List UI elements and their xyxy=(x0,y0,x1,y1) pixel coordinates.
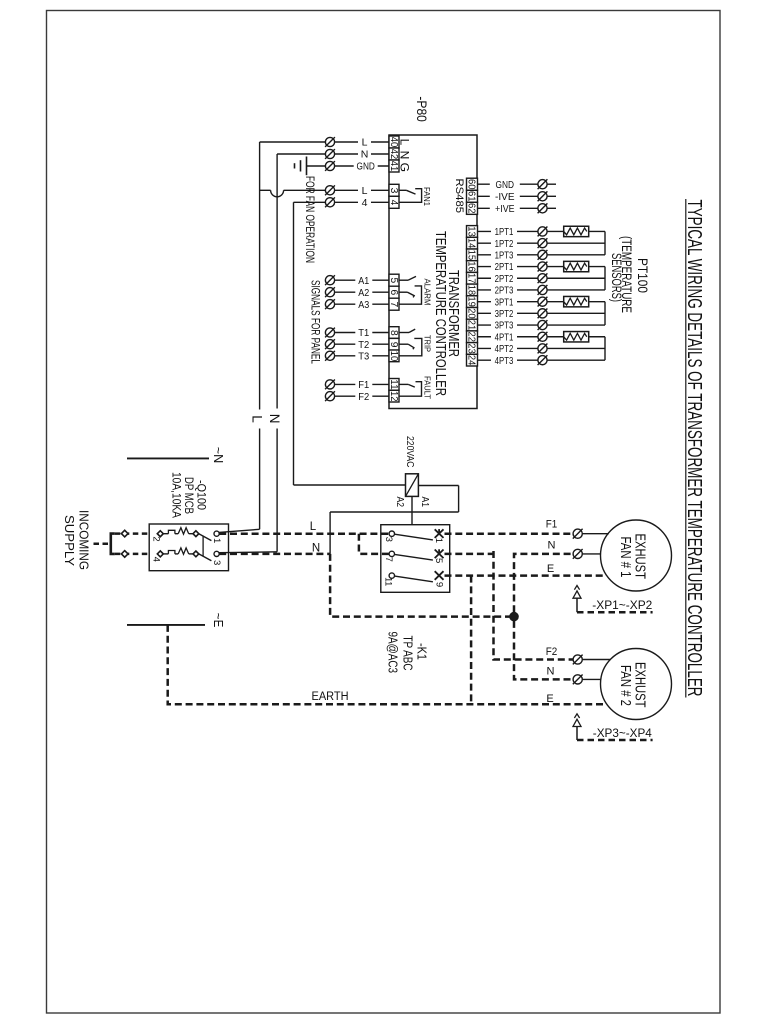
svg-text:PT100: PT100 xyxy=(635,258,651,293)
svg-text:FOR FAN OPERATION: FOR FAN OPERATION xyxy=(303,176,315,263)
connector circle F1 xyxy=(573,529,583,539)
svg-text:L: L xyxy=(398,139,412,146)
svg-text:7: 7 xyxy=(383,557,394,562)
svg-text:SUPPLY: SUPPLY xyxy=(62,515,77,566)
connector circle 3PT1 xyxy=(538,297,548,307)
svg-text:-K1: -K1 xyxy=(415,643,430,660)
svg-text:15: 15 xyxy=(465,250,476,261)
dashed wire X1 to fan1 F1 xyxy=(445,532,574,535)
wire signal row A3 xyxy=(330,303,389,305)
dashed neutral up to fan1 N xyxy=(514,554,573,612)
breaker Q100 pole 2 xyxy=(163,548,211,561)
svg-text:18: 18 xyxy=(465,285,476,296)
terminal 12 square on controller xyxy=(388,390,399,402)
label T2 xyxy=(355,338,372,350)
svg-text:E: E xyxy=(547,563,554,575)
connector circle 3PT2 xyxy=(538,308,548,318)
svg-text:T3: T3 xyxy=(358,350,369,362)
svg-text:3PT1: 3PT1 xyxy=(495,296,514,308)
dashed wire X9 to fan1 E xyxy=(445,574,607,577)
svg-text:-P80: -P80 xyxy=(414,96,430,122)
svg-text:9: 9 xyxy=(388,342,399,348)
K1 contact row 1 xyxy=(395,529,444,540)
svg-text:ALARM: ALARM xyxy=(422,279,431,306)
exhaust fan #1 circle xyxy=(601,520,672,591)
svg-text:GND: GND xyxy=(357,161,376,173)
dashed neutral feed down to junction xyxy=(330,554,510,617)
svg-text:40: 40 xyxy=(388,137,399,148)
svg-text:L: L xyxy=(362,185,368,197)
svg-text:A2: A2 xyxy=(394,497,405,508)
RTD sensor resistor group 1 xyxy=(564,226,589,236)
text -Q100 DP MCB 10A,10KA xyxy=(170,472,207,518)
RTD sensor resistor group 2 xyxy=(564,261,589,271)
connector circle +IVE xyxy=(538,203,548,213)
svg-text:3: 3 xyxy=(383,537,394,542)
connector circle GND xyxy=(538,179,548,189)
label 3PT1 xyxy=(491,296,517,308)
connector circle 1PT2 xyxy=(538,238,548,248)
wire RS485 row GND xyxy=(478,183,557,185)
terminal 61 square RS485 xyxy=(465,190,477,202)
wire signal row T3 xyxy=(330,355,389,357)
connector circle row Lf xyxy=(325,185,335,195)
label F2 xyxy=(355,390,372,402)
wire signal row T2 xyxy=(330,343,389,345)
supply connector diamond L xyxy=(121,530,128,537)
svg-text:6: 6 xyxy=(388,290,399,296)
wire N circle to fan1 xyxy=(582,553,601,555)
svg-text:+IVE: +IVE xyxy=(495,203,515,215)
label A1 xyxy=(355,274,372,286)
terminal 19 square sensor strip xyxy=(465,296,477,308)
svg-text:FAULT: FAULT xyxy=(422,376,431,399)
svg-text:14: 14 xyxy=(465,238,476,249)
svg-text:N: N xyxy=(312,543,320,555)
svg-text:-Q100: -Q100 xyxy=(195,480,207,510)
svg-text:2PT3: 2PT3 xyxy=(495,285,514,297)
svg-text:2: 2 xyxy=(151,536,162,541)
svg-text:F2: F2 xyxy=(358,391,369,403)
wire RS485 row +IVE xyxy=(478,207,557,209)
terminal 15 square sensor strip xyxy=(465,249,477,261)
svg-text:INCOMING: INCOMING xyxy=(77,510,92,570)
relay coil K1 A1-A2 xyxy=(406,474,419,497)
terminal 8 square on controller xyxy=(388,327,399,339)
svg-text:220VAC: 220VAC xyxy=(404,436,416,468)
svg-text:GND: GND xyxy=(496,179,515,191)
svg-text:N: N xyxy=(361,149,369,161)
label T3 xyxy=(355,350,372,362)
svg-text:4: 4 xyxy=(388,200,399,206)
K1 contact row 3 xyxy=(395,571,444,582)
svg-text:4PT3: 4PT3 xyxy=(495,355,514,367)
dashed EARTH line xyxy=(168,625,608,704)
svg-text:2PT2: 2PT2 xyxy=(495,273,514,285)
svg-text:N: N xyxy=(548,540,556,552)
wires sensor group 3 xyxy=(478,302,606,325)
vertical 4 bus to coil xyxy=(294,202,406,485)
contact FAULT terminals 11-12 xyxy=(399,382,422,397)
svg-text:A2: A2 xyxy=(358,287,369,299)
svg-text:22: 22 xyxy=(465,332,476,343)
K1 contact row 2 xyxy=(395,550,444,561)
terminal 62 square RS485 xyxy=(465,202,477,214)
Q100 mechanical tie bar xyxy=(202,536,204,557)
supply stub dashed xyxy=(94,543,111,546)
connector circle N fan1 xyxy=(573,549,583,559)
terminal 14 square sensor strip xyxy=(465,237,477,249)
plug arrow -XP3~-XP4 xyxy=(573,714,653,740)
wire F2 circle to fan2 xyxy=(582,659,610,661)
connector circle row F1 xyxy=(325,380,335,390)
svg-text:4: 4 xyxy=(362,197,368,209)
svg-text:24: 24 xyxy=(465,355,476,366)
svg-text:21: 21 xyxy=(465,320,476,331)
svg-text:3: 3 xyxy=(388,188,399,194)
dashed wire N to coil junction xyxy=(219,553,330,556)
svg-text:TRIP: TRIP xyxy=(422,335,431,352)
terminal 40 square on controller xyxy=(388,136,399,148)
dashed earth drop from E row xyxy=(470,576,473,705)
connector circle 1PT1 xyxy=(538,227,548,237)
svg-text:3PT3: 3PT3 xyxy=(495,320,514,332)
terminal 6 square on controller xyxy=(388,286,399,298)
wire 4 row from bus corner to terminal 4 xyxy=(294,201,390,203)
terminal 7 square on controller xyxy=(388,298,399,310)
wire coil to K1 box xyxy=(411,496,413,524)
svg-text:5: 5 xyxy=(388,278,399,284)
connector circle row A1 xyxy=(325,275,335,285)
svg-text:N: N xyxy=(547,666,555,678)
svg-text:4PT2: 4PT2 xyxy=(495,343,514,355)
terminal 3 square on controller xyxy=(388,184,399,196)
label N on N bus xyxy=(267,409,283,429)
supply dashed row N xyxy=(115,553,149,556)
terminal circle 1 xyxy=(214,531,219,536)
svg-text:~N: ~N xyxy=(211,447,226,464)
connector circle row L xyxy=(325,137,335,147)
wire signal row F1 xyxy=(330,383,389,385)
terminal 10 square on controller xyxy=(388,350,399,362)
svg-text:2PT1: 2PT1 xyxy=(495,261,514,273)
terminal 17 square sensor strip xyxy=(465,272,477,284)
RTD sensor resistor group 4 xyxy=(564,332,589,342)
label 4PT1 xyxy=(491,331,517,343)
svg-text:1PT2: 1PT2 xyxy=(495,238,514,250)
text INCOMING SUPPLY xyxy=(62,510,92,570)
svg-text:17: 17 xyxy=(465,273,476,284)
label 1PT2 xyxy=(491,237,517,249)
svg-text:-XP1~-XP2: -XP1~-XP2 xyxy=(592,600,652,612)
label 3PT2 xyxy=(491,308,517,320)
contactor K1 box xyxy=(381,525,450,593)
label F1 xyxy=(355,379,372,391)
earth ground symbol xyxy=(295,157,307,176)
label L fan row xyxy=(358,185,371,197)
label 1PT1 xyxy=(491,226,517,238)
connector circle row T1 xyxy=(325,328,335,338)
svg-text:19: 19 xyxy=(465,296,476,307)
label T1 xyxy=(355,327,372,339)
svg-text:12: 12 xyxy=(388,391,399,402)
plug arrow -XP1~-XP2 xyxy=(573,586,653,613)
connector circle row A3 xyxy=(325,299,335,309)
contact TRIP terminals 8-9-10 xyxy=(399,329,422,356)
terminal 22 square sensor strip xyxy=(465,331,477,343)
svg-text:L: L xyxy=(362,137,368,149)
label N row42 xyxy=(358,148,371,160)
svg-text:11: 11 xyxy=(388,379,399,390)
label A3 xyxy=(355,298,372,310)
wire N circle to fan2 xyxy=(582,678,601,680)
svg-text:SENSORS): SENSORS) xyxy=(609,253,625,302)
terminal diamond 4 xyxy=(157,551,163,557)
svg-text:SIGNALS FOR PANEL: SIGNALS FOR PANEL xyxy=(308,280,320,364)
svg-text:A1: A1 xyxy=(358,275,369,287)
connector circle row 4f xyxy=(325,197,335,207)
breaker Q100 pole 1 xyxy=(163,528,211,541)
terminal 24 square sensor strip xyxy=(465,354,477,366)
svg-text:F1: F1 xyxy=(358,379,369,391)
svg-text:13: 13 xyxy=(465,226,476,237)
label 4PT2 xyxy=(491,343,517,355)
terminal 21 square sensor strip xyxy=(465,319,477,331)
dashed wire X5 to fan2 F2 xyxy=(445,551,574,660)
svg-text:TYPICAL WIRING DETAILS OF TRAN: TYPICAL WIRING DETAILS OF TRANSFORMER TE… xyxy=(683,200,706,697)
connector circle F2 xyxy=(573,655,583,665)
svg-text:-IVE: -IVE xyxy=(495,191,515,203)
connector circle row GND xyxy=(325,161,335,171)
rail ~E line xyxy=(127,624,205,626)
terminal 16 square sensor strip xyxy=(465,261,477,273)
connector circle 4PT3 xyxy=(538,355,548,365)
connector circle 1PT3 xyxy=(538,250,548,260)
terminal 5 square on controller xyxy=(388,274,399,286)
svg-text:10: 10 xyxy=(388,351,399,362)
connector circle 4PT2 xyxy=(538,344,548,354)
supply bracket xyxy=(111,534,115,554)
terminal 42 square on controller xyxy=(388,148,399,160)
svg-text:23: 23 xyxy=(465,343,476,354)
wires sensor group 4 xyxy=(478,337,606,360)
connector circle row T3 xyxy=(325,351,335,361)
label 3PT3 xyxy=(491,319,517,331)
wire signal row A1 xyxy=(330,279,389,281)
svg-text:11: 11 xyxy=(382,577,393,586)
svg-text:DP MCB: DP MCB xyxy=(182,477,194,514)
svg-text:T1: T1 xyxy=(358,327,369,339)
svg-text:8: 8 xyxy=(388,330,399,336)
label L row40 xyxy=(358,136,371,148)
wire signal row T1 xyxy=(330,332,389,334)
terminal 18 square sensor strip xyxy=(465,284,477,296)
svg-text:E: E xyxy=(546,693,553,705)
svg-text:A1: A1 xyxy=(419,497,430,508)
title TYPICAL WIRING DETAILS OF TRANSFORMER TEMPERATURE CONTROLLER xyxy=(683,199,706,698)
text EXHUST FAN # 2 xyxy=(617,662,648,708)
label -IVE xyxy=(490,191,520,203)
svg-text:9A@AC3: 9A@AC3 xyxy=(386,632,401,674)
connector circle 4PT1 xyxy=(538,332,548,342)
svg-text:1: 1 xyxy=(433,538,444,543)
K1 terminal circle row 2 xyxy=(389,551,394,556)
wire F1 circle to fan1 xyxy=(582,533,609,535)
label 4PT3 xyxy=(491,354,517,366)
connector circle 2PT3 xyxy=(538,285,548,295)
svg-text:5: 5 xyxy=(433,558,444,563)
label 2PT3 xyxy=(491,284,517,296)
wire Q100-1 to L bus diagonal xyxy=(219,529,260,532)
svg-text:L: L xyxy=(310,521,317,533)
wire GND row to terminal 41 xyxy=(307,165,389,167)
wire coil A1 to neutral junction xyxy=(330,486,459,554)
connector circle N fan2 xyxy=(573,675,583,685)
svg-text:TP ABC: TP ABC xyxy=(401,636,416,671)
label GND xyxy=(490,178,520,190)
wires sensor group 1 xyxy=(478,231,606,254)
svg-text:61: 61 xyxy=(465,191,476,202)
svg-text:RS485: RS485 xyxy=(453,179,465,214)
connector circle 2PT2 xyxy=(538,273,548,283)
connector circle row F2 xyxy=(325,391,335,401)
connector circle row T2 xyxy=(325,339,335,349)
svg-text:62: 62 xyxy=(465,203,476,214)
svg-text:~E: ~E xyxy=(211,613,226,628)
text EXHUST FAN # 1 xyxy=(617,534,648,580)
junction dot xyxy=(509,612,519,622)
svg-text:7: 7 xyxy=(388,302,399,308)
connector circle row A2 xyxy=(325,287,335,297)
controller box -P80 outline xyxy=(389,135,477,409)
label 4 fan row xyxy=(358,197,371,209)
label 2PT1 xyxy=(491,261,517,273)
svg-text:F2: F2 xyxy=(546,646,558,658)
label 2PT2 xyxy=(491,272,517,284)
svg-text:1PT1: 1PT1 xyxy=(495,226,514,238)
wire L row from bus to terminal 40 xyxy=(260,141,389,143)
connector circle 3PT3 xyxy=(538,320,548,330)
svg-text:EARTH: EARTH xyxy=(312,691,349,703)
terminal 9 square on controller xyxy=(388,338,399,350)
connector circle -IVE xyxy=(538,191,548,201)
wires sensor group 2 xyxy=(478,267,606,290)
pivot diamond pole 2 xyxy=(193,551,199,557)
terminal 60 square RS485 xyxy=(465,178,477,190)
vertical L bus xyxy=(259,142,261,529)
wire N row from bus to terminal 42 xyxy=(277,153,389,155)
K1 X stem row 2 xyxy=(438,549,440,554)
wire fan L row with hop over N bus xyxy=(260,190,389,197)
svg-text:10A,10KA: 10A,10KA xyxy=(170,472,182,518)
svg-text:F1: F1 xyxy=(546,519,558,531)
svg-text:41: 41 xyxy=(388,161,399,172)
connector circle 2PT1 xyxy=(538,262,548,272)
rail ~N line xyxy=(127,457,209,459)
breaker Q100 box xyxy=(149,524,228,571)
text -K1 TP ABC 9A@AC3 xyxy=(386,632,430,674)
svg-text:1: 1 xyxy=(211,538,222,543)
label A2 xyxy=(355,286,372,298)
svg-text:3: 3 xyxy=(211,560,222,565)
svg-text:60: 60 xyxy=(465,179,476,190)
svg-text:-XP3~-XP4: -XP3~-XP4 xyxy=(593,728,653,740)
connector circle row N xyxy=(325,149,335,159)
K1 X stem row 1 xyxy=(438,529,440,534)
svg-text:3PT2: 3PT2 xyxy=(495,308,514,320)
terminal diamond 2 xyxy=(157,531,163,537)
terminal 23 square sensor strip xyxy=(465,343,477,355)
label GND row41 xyxy=(354,160,378,172)
K1 terminal circle row 1 xyxy=(389,531,394,536)
svg-text:FAN1: FAN1 xyxy=(422,187,431,206)
vertical N bus xyxy=(276,154,278,552)
svg-text:20: 20 xyxy=(465,308,476,319)
dashed neutral down to fan2 N xyxy=(514,621,573,680)
svg-text:A3: A3 xyxy=(358,299,369,311)
labels L N G inside box xyxy=(398,139,412,172)
svg-text:9: 9 xyxy=(434,582,445,587)
terminal circle 3 xyxy=(214,551,219,556)
svg-text:T2: T2 xyxy=(358,339,369,351)
svg-text:FAN # 2: FAN # 2 xyxy=(617,665,633,706)
svg-text:FAN # 1: FAN # 1 xyxy=(617,537,633,578)
contact ALARM terminals 5-6-7 xyxy=(399,276,422,304)
svg-text:42: 42 xyxy=(388,149,399,160)
pivot diamond pole 1 xyxy=(193,531,199,537)
dashed branch L down to K1 contact 7 xyxy=(359,534,389,554)
label +IVE xyxy=(490,203,520,215)
RTD sensor resistor group 3 xyxy=(564,296,589,306)
wire RS485 row -IVE xyxy=(478,195,557,197)
svg-text:1PT3: 1PT3 xyxy=(495,249,514,261)
svg-text:4PT1: 4PT1 xyxy=(495,331,514,343)
svg-text:4: 4 xyxy=(151,557,162,562)
supply connector diamond N xyxy=(121,551,128,558)
terminal 41 square on controller xyxy=(388,160,399,172)
svg-text:N: N xyxy=(267,414,282,424)
supply dashed row L xyxy=(115,532,149,535)
svg-text:G: G xyxy=(398,163,412,172)
K1 terminal circle row 3 xyxy=(389,573,394,578)
wire Q100-3 to N bus diagonal xyxy=(219,551,277,554)
svg-text:L: L xyxy=(250,415,265,423)
terminal 11 square on controller xyxy=(388,379,399,391)
wire signal row A2 xyxy=(330,291,389,293)
label L on L bus xyxy=(250,410,265,429)
terminal 20 square sensor strip xyxy=(465,308,477,320)
wire signal row F2 xyxy=(330,395,389,397)
dashed wire L to K1 contact 3 xyxy=(219,532,389,535)
svg-text:TEMPERATURE CONTROLLER: TEMPERATURE CONTROLLER xyxy=(432,231,449,396)
terminal 13 square sensor strip xyxy=(465,226,477,238)
svg-text:N: N xyxy=(398,151,412,160)
svg-text:16: 16 xyxy=(465,261,476,272)
label 1PT3 xyxy=(491,249,517,261)
terminal 4 square on controller xyxy=(388,196,399,208)
contact FAN1 terminals 3-4 xyxy=(399,189,422,203)
exhaust fan #2 circle xyxy=(601,649,672,720)
